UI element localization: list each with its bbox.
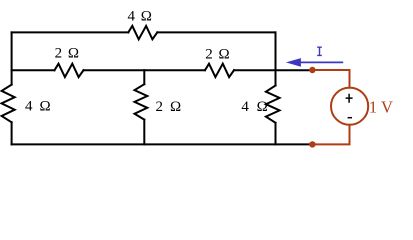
svg-text:4 Ω: 4 Ω [241, 99, 269, 115]
svg-text:2 Ω: 2 Ω [55, 45, 80, 61]
wire right vertical top [275, 32, 277, 85]
resistor Rleft 4&#937; zigzag [2, 85, 15, 123]
wire left vertical top stub [11, 32, 13, 84]
wire top-left segment [12, 31, 129, 33]
label I (drawn as serif strokes) [317, 47, 322, 55]
node top terminal dot [309, 67, 315, 73]
current arrow I shaft [299, 61, 343, 63]
resistor Rmid 2&#937; zigzag [135, 84, 148, 119]
resistor Rright 4&#937; zigzag [266, 86, 280, 123]
wire bottom [12, 143, 313, 145]
wire right vertical bottom stub [275, 123, 277, 145]
resistor R2 2&#937; zigzag [205, 64, 234, 77]
wire middle row segment C [234, 69, 311, 71]
node bottom terminal dot [309, 141, 315, 147]
voltage source minus sign [348, 117, 352, 119]
svg-text:4 Ω: 4 Ω [25, 99, 52, 115]
wire middle row segment A [12, 69, 55, 71]
svg-text:2 Ω: 2 Ω [205, 46, 230, 62]
voltage source V1 circle [331, 88, 368, 125]
wire middle vertical top stub [143, 70, 145, 84]
current arrow I head [286, 58, 301, 67]
svg-text:4 Ω: 4 Ω [128, 8, 153, 24]
resistor Rtop 4&#937; zigzag [128, 26, 157, 39]
voltage source plus sign [346, 94, 353, 103]
wire middle row segment B [84, 69, 206, 71]
svg-text:2 Ω: 2 Ω [156, 99, 183, 115]
wire red: source to bottom terminal [312, 125, 349, 144]
svg-text:1 V: 1 V [369, 98, 393, 117]
wire left vertical bottom stub [11, 122, 13, 144]
wire middle vertical bottom stub [143, 120, 145, 145]
wire top-right segment [157, 31, 275, 33]
resistor R1 2&#937; zigzag [55, 64, 84, 77]
wire red: top terminal to source [312, 70, 349, 88]
